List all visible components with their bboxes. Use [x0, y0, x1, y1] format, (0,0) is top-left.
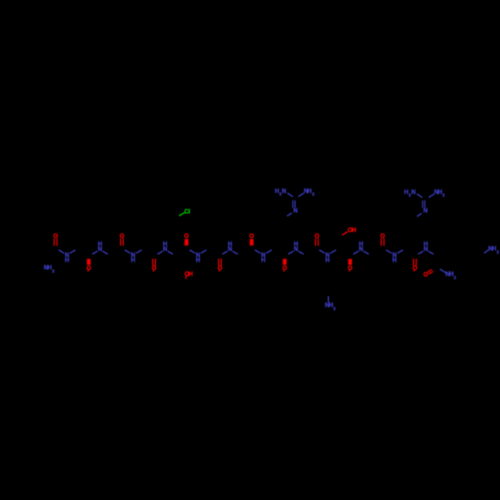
carbonyl O8 (C=O down) of residue 8 [282, 259, 287, 272]
svg-text:H: H [325, 258, 329, 264]
amide N3-H (H below) [125, 250, 141, 264]
amide N2-H (H above) [93, 242, 108, 254]
svg-text:N: N [359, 247, 363, 253]
svg-text:N: N [98, 247, 102, 253]
amide N6-H (H above) [223, 242, 238, 254]
carbonyl O5 (C=O up) of residue 5 [184, 234, 189, 246]
amide N7-H (H below) [255, 250, 271, 264]
amide N4-H (H above) [158, 242, 173, 254]
arginine guanidinium 2 NH2 [429, 190, 445, 198]
arginine guanidinium 1 H2N [275, 189, 293, 197]
svg-text:Cl: Cl [184, 209, 190, 215]
carbonyl O4 (C=O down) of residue 4 [152, 259, 157, 272]
svg-text:O: O [282, 266, 287, 272]
amide N10-H (H above) [354, 242, 369, 254]
side-chain hydroxyl OH (up, serine) [342, 228, 356, 235]
carbonyl O9 (C=O up) of residue 9 [315, 234, 320, 246]
carbonyl O10 (C=O down) of residue 10 [348, 259, 353, 272]
arginine guanidinium 1 NH2 [299, 189, 315, 197]
svg-text:O: O [152, 266, 157, 272]
lysine side-chain NH2 (bottom) [325, 297, 336, 311]
carbonyl O3 (C=O up) of residue 3 [120, 234, 125, 246]
lysine side-chain NH2 (right) [484, 247, 499, 255]
carbonyl O11 (C=O up) of residue 11 [380, 234, 385, 246]
carbonyl O7 (C=O up) of residue 7 [249, 234, 254, 246]
svg-text:N: N [293, 209, 297, 215]
amide N12-H (H above) [419, 242, 434, 254]
amide N5-H (H below) [190, 250, 206, 264]
svg-text:H: H [65, 258, 69, 264]
carbonyl O12 (C=O down) of residue 12 [413, 259, 418, 272]
chloro substituent Cl on phenyl ring [179, 209, 190, 215]
svg-text:N: N [411, 190, 415, 196]
carbonyl O1 (C=O up) of residue 1 [53, 234, 58, 246]
svg-text:N: N [424, 247, 428, 253]
svg-text:N: N [282, 189, 286, 195]
arginine guanidinium 1 C=N imine [287, 201, 297, 216]
svg-text:N: N [423, 209, 427, 215]
svg-text:O: O [413, 266, 418, 272]
N-terminal amine NH2 [44, 266, 55, 274]
svg-text:H: H [392, 258, 396, 264]
C-terminal amide O [423, 270, 432, 279]
side-chain hydroxyl OH (down, threonine) [185, 272, 193, 278]
amide N9-H (H below) [320, 250, 336, 264]
svg-text:H: H [196, 258, 200, 264]
amide N8-H (H above) [289, 242, 304, 254]
carbonyl O2 (C=O down) of residue 2 [86, 259, 91, 272]
amide N11-H (H below) [387, 250, 403, 264]
svg-text:H: H [131, 258, 135, 264]
svg-text:N: N [294, 247, 298, 253]
svg-text:O: O [348, 266, 353, 272]
svg-text:N: N [163, 247, 167, 253]
svg-text:H: H [189, 272, 193, 278]
svg-text:N: N [228, 247, 232, 253]
svg-text:O: O [86, 266, 91, 272]
svg-text:O: O [423, 273, 428, 279]
amide N1-H (H below) [59, 250, 75, 264]
arginine guanidinium 2 H2N [404, 190, 422, 198]
svg-text:H: H [261, 258, 265, 264]
arginine guanidinium 2 C=N imine [417, 201, 427, 216]
svg-text:O: O [218, 266, 223, 272]
carbonyl O6 (C=O down) of residue 6 [218, 259, 223, 272]
C-terminal amide NH2 [440, 269, 457, 280]
svg-text:H: H [352, 228, 356, 234]
